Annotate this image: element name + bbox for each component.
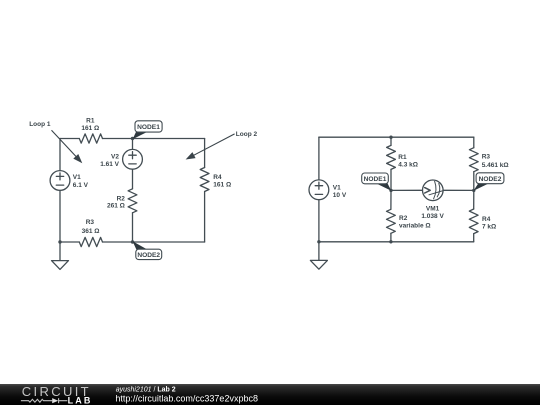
- svg-text:V2: V2: [111, 153, 119, 160]
- wire: left circuit right rail upper: [204, 139, 206, 168]
- resistor R4 (right circuit, 7 kohm): [469, 209, 478, 234]
- wire: VM1 right lead: [443, 189, 474, 191]
- resistor R1 (left circuit, 161 ohm, top rail): [79, 134, 102, 143]
- label Loop 2: [236, 131, 258, 138]
- wire: right circuit left rail upper: [318, 137, 320, 180]
- label R4 value (right circuit): [482, 216, 496, 231]
- svg-text:NODE1: NODE1: [137, 124, 160, 131]
- svg-text:Loop 2: Loop 2: [236, 131, 258, 138]
- footer url: [115, 393, 258, 403]
- wire: right circuit middle branch between node and R2: [390, 190, 392, 209]
- wire: left circuit right rail lower: [204, 192, 206, 243]
- svg-text:4.3 kΩ: 4.3 kΩ: [398, 162, 418, 169]
- wire: right circuit middle branch between R1 and node: [390, 169, 392, 190]
- wire: right circuit top rail: [319, 136, 474, 138]
- label R4 value (left circuit): [213, 174, 231, 188]
- ground (left circuit): [52, 242, 69, 269]
- svg-text:Loop 1: Loop 1: [29, 121, 51, 128]
- svg-text:NODE2: NODE2: [137, 252, 160, 259]
- node flag NODE1 (right circuit): [362, 173, 392, 191]
- node flag NODE2 (right circuit): [474, 173, 504, 191]
- label R2 value (left circuit): [107, 195, 125, 209]
- svg-text:1.038 V: 1.038 V: [421, 213, 444, 220]
- label R1 value (left circuit): [81, 118, 99, 133]
- node flag NODE2 (left circuit): [133, 241, 162, 259]
- node junction dot: left circuit ground junction: [58, 240, 61, 243]
- voltage source V1 (left circuit, 6.1 V): [50, 171, 70, 191]
- svg-text:R3: R3: [482, 154, 491, 161]
- label R3 value (left circuit): [82, 219, 100, 235]
- wire: VM1 left lead: [391, 189, 423, 191]
- node junction dot: right circuit NODE2: [472, 189, 475, 192]
- label V1 value (left circuit): [73, 174, 89, 189]
- wire: right circuit right rail between node and R4: [473, 190, 475, 209]
- annotation arrow Loop 1: [52, 130, 83, 163]
- node junction dot: right circuit bottom middle: [389, 240, 392, 243]
- svg-text:7 kΩ: 7 kΩ: [482, 223, 496, 230]
- svg-text:variable Ω: variable Ω: [399, 223, 431, 230]
- CircuitLab logo wordmark CIRCUIT: [22, 384, 91, 399]
- wire: left circuit middle branch lower: [132, 213, 134, 242]
- svg-text:NODE2: NODE2: [479, 176, 502, 183]
- svg-text:6.1 V: 6.1 V: [73, 182, 89, 189]
- CircuitLab logo wordmark LAB: [68, 396, 93, 405]
- label R3 value (right circuit): [482, 154, 509, 169]
- svg-text:5.461 kΩ: 5.461 kΩ: [482, 162, 509, 169]
- annotation arrow Loop 2: [186, 134, 235, 160]
- svg-text:LAB: LAB: [68, 396, 93, 405]
- wire: left circuit top rail: [60, 138, 205, 140]
- voltage source V2 (left circuit, 1.61 V): [123, 149, 143, 169]
- wire: left circuit middle branch between V2 and R2: [132, 169, 134, 189]
- svg-text:1.61 V: 1.61 V: [100, 161, 119, 168]
- svg-text:10 V: 10 V: [333, 192, 347, 199]
- svg-text:V1: V1: [333, 184, 341, 191]
- svg-text:NODE1: NODE1: [364, 176, 387, 183]
- svg-text:161 Ω: 161 Ω: [213, 181, 231, 188]
- voltmeter VM1 (1.038 V): [423, 180, 444, 201]
- logo resistor squiggle: [21, 399, 52, 402]
- svg-text:R1: R1: [86, 118, 95, 125]
- svg-text:VM1: VM1: [426, 205, 440, 212]
- logo diode symbol: [52, 398, 67, 403]
- footer title: ayushi2101 / Lab 2: [116, 386, 176, 393]
- voltage source V1 (right circuit, 10 V): [309, 180, 329, 200]
- wire: left circuit left rail upper: [59, 139, 61, 171]
- svg-text:161 Ω: 161 Ω: [81, 125, 99, 132]
- node junction dot: left circuit NODE1: [131, 137, 134, 140]
- label V1 value (right circuit): [333, 184, 347, 199]
- footer bar: [0, 384, 540, 405]
- wire: left circuit middle branch upper: [132, 139, 134, 150]
- node junction dot: left circuit NODE2: [131, 240, 134, 243]
- svg-text:R4: R4: [213, 174, 222, 181]
- resistor R4 (left circuit, 161 ohm, right rail): [200, 168, 209, 192]
- label V2 value (left circuit): [100, 153, 119, 168]
- wire: left circuit bottom rail: [60, 241, 205, 243]
- label Loop 1: [29, 121, 51, 128]
- label VM1 value (right circuit): [421, 205, 444, 220]
- ground (right circuit): [310, 242, 327, 269]
- wire: right circuit middle branch lower: [390, 233, 392, 242]
- svg-text:R2: R2: [117, 195, 126, 202]
- svg-text:http://circuitlab.com/cc337e2v: http://circuitlab.com/cc337e2vxpbc8: [115, 393, 258, 403]
- wire: right circuit left rail lower: [318, 200, 320, 242]
- node flag NODE1 (left circuit): [133, 121, 163, 140]
- resistor R2 (left circuit, 261 ohm, middle branch): [128, 189, 137, 213]
- node junction dot: right circuit NODE1: [389, 189, 392, 192]
- svg-text:R4: R4: [482, 216, 491, 223]
- label R1 value (right circuit): [398, 154, 418, 169]
- wire: right circuit middle branch top lead: [390, 137, 392, 145]
- wire: right circuit bottom rail: [319, 241, 474, 243]
- svg-text:R2: R2: [399, 215, 408, 222]
- svg-text:361 Ω: 361 Ω: [82, 228, 100, 235]
- wire: right circuit right rail top lead: [473, 137, 475, 148]
- svg-text:R1: R1: [398, 154, 407, 161]
- svg-text:R3: R3: [86, 219, 95, 226]
- svg-text:V1: V1: [73, 174, 81, 181]
- resistor R3 (right circuit, 5.461 kohm): [469, 148, 478, 172]
- svg-text:261 Ω: 261 Ω: [107, 202, 125, 209]
- resistor R3 (left circuit, 361 ohm, bottom rail): [79, 237, 102, 246]
- wire: right circuit right rail between R3 and node: [473, 172, 475, 191]
- node junction dot: right circuit top: [389, 136, 392, 139]
- node junction dot: right circuit ground junction: [317, 240, 320, 243]
- wire: right circuit right rail lower: [473, 234, 475, 242]
- label R2 value (right circuit): [399, 215, 431, 230]
- resistor R1 (right circuit, 4.3 kohm): [387, 145, 396, 169]
- resistor R2 (right circuit, variable ohm): [387, 209, 396, 233]
- wire: left circuit left rail lower: [59, 190, 61, 242]
